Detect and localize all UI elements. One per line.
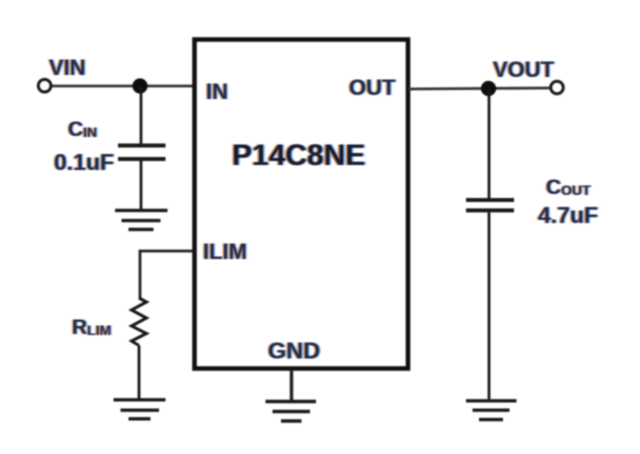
svg-text:VOUT: VOUT [493, 57, 555, 82]
ground (IC GND pin) [266, 402, 317, 422]
svg-text:0.1uF: 0.1uF [54, 149, 114, 175]
capacitor C_OUT [466, 89, 514, 399]
wire ILIM pin to resistor [140, 251, 193, 299]
resistor R_LIM [132, 298, 147, 399]
wire GND pin [290, 370, 293, 401]
svg-text:ILIM: ILIM [203, 239, 247, 264]
terminal VIN (open circle) [38, 79, 51, 92]
ground (below C_OUT) [466, 401, 517, 420]
capacitor C_IN [118, 86, 166, 209]
ground (below R_LIM) [114, 400, 166, 419]
IC U1 P14C8NE body [195, 40, 409, 369]
svg-text:OUT: OUT [349, 75, 396, 100]
svg-text:IN: IN [206, 79, 228, 104]
ground (below C_IN) [115, 210, 168, 229]
terminal VOUT (open circle) [551, 81, 564, 94]
junction node VIN/CIN [132, 78, 147, 93]
svg-text:GND: GND [268, 338, 320, 364]
wire OUT pin to VOUT terminal [408, 88, 551, 89]
svg-text:P14C8NE: P14C8NE [232, 139, 365, 172]
wire VIN input (terminal to IN pin) [51, 85, 194, 88]
junction node VOUT/COUT [481, 81, 496, 96]
svg-text:4.7uF: 4.7uF [538, 202, 598, 228]
svg-text:VIN: VIN [49, 55, 86, 80]
